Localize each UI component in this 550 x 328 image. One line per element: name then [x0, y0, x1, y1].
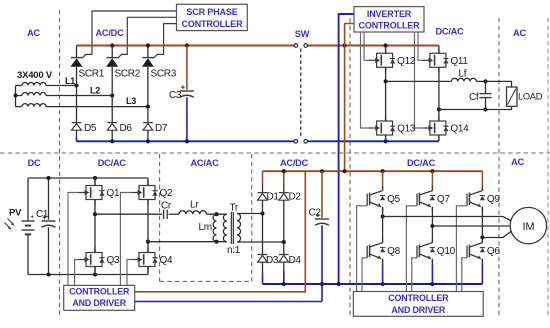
wire SCR3 cathode to DC+ rail: [147, 46, 149, 58]
node Lm bottom: [214, 240, 218, 244]
wire DC- bus corner to D5: [76, 138, 78, 141]
wire C1 top lead: [48, 178, 50, 220]
mosfet Q4: [132, 247, 173, 272]
mosfet Q1: [79, 180, 120, 205]
wire Q1 drain leg: [94, 178, 96, 186]
node Cf bottom: [483, 107, 487, 111]
wire gate Q4: [127, 260, 132, 286]
capacitor Cr: [164, 210, 168, 219]
wire D7 anode down: [147, 130, 149, 141]
svg-text:LOAD: LOAD: [518, 92, 543, 102]
mosfet Q3: [79, 247, 120, 272]
wire D6 anode down: [111, 130, 113, 141]
wire L2: [46, 95, 112, 97]
svg-text:Q8: Q8: [387, 246, 400, 257]
wire bridge output to Cr: [95, 213, 162, 215]
wire Q1 source to Q3 drain: [94, 200, 96, 253]
wire PV DC- rail: [28, 274, 148, 276]
igbt Q8: [367, 238, 400, 263]
wire C2 top lead brown: [321, 171, 323, 218]
diode D6: [107, 123, 117, 131]
section boundary dashed line DC-AC|AC: [498, 18, 500, 316]
svg-text:CONTROLLER: CONTROLLER: [69, 287, 130, 297]
wire D4 anode: [283, 262, 285, 271]
svg-text:Lf: Lf: [459, 69, 467, 80]
node phase 3: [480, 235, 484, 239]
wire gate Q6: [462, 258, 467, 292]
svg-text:IM: IM: [522, 221, 534, 233]
wire Q7 collector: [431, 187, 433, 191]
node Q3 source: [93, 272, 97, 276]
igbt Q6: [467, 238, 500, 263]
svg-text:SCR2: SCR2: [115, 69, 141, 80]
wire DC- bus right of SW pole2: [308, 140, 439, 142]
wire Q11 source to Q14 drain: [438, 67, 440, 121]
wire gate Q11: [418, 32, 423, 60]
node DC- bus / C3: [185, 139, 189, 143]
wire DC+ rail bottom: [263, 170, 483, 172]
node DC+ rail / C2: [320, 169, 324, 173]
node DC+ rail / C3: [185, 43, 189, 47]
wire D1 cathode: [262, 184, 264, 193]
switch SW pole 1: [294, 44, 308, 48]
wire inverter output top: [386, 80, 452, 82]
wire brown left controller to DC+ rail: [135, 171, 306, 292]
svg-text:SW: SW: [295, 29, 310, 39]
svg-text:AND DRIVER: AND DRIVER: [72, 298, 126, 308]
wire gate Q7: [406, 206, 417, 292]
wire D4 to DC- bus blue: [283, 271, 285, 284]
node rectifier right midpoint: [282, 240, 286, 244]
wire inverter output bottom: [439, 106, 512, 109]
PV source: [5, 178, 36, 275]
diode D4: [279, 255, 289, 263]
node DC- bus / controller feed: [337, 282, 341, 286]
wire gate Q1: [68, 193, 79, 286]
svg-text:Q3: Q3: [107, 255, 120, 266]
node DC+ rail / SCR2: [110, 43, 114, 47]
svg-text:Q9: Q9: [487, 194, 500, 205]
svg-text:Q2: Q2: [160, 188, 173, 199]
wire Q6 emitter: [481, 259, 483, 264]
svg-text:+: +: [30, 212, 35, 221]
diode D7: [143, 123, 153, 131]
wire C1 bottom lead: [48, 227, 50, 274]
wire secondary bottom to rectifier: [237, 241, 284, 243]
section boundary dashed line right edge: [547, 18, 549, 316]
svg-text:AC: AC: [27, 28, 40, 38]
wire L3: [46, 106, 148, 108]
svg-text:3X400 V: 3X400 V: [17, 70, 53, 81]
node L3 junction: [146, 105, 150, 109]
wire D3 anode: [262, 262, 264, 272]
wire D2 cathode brown: [283, 171, 285, 184]
svg-text:CONTROLLER: CONTROLLER: [359, 21, 421, 31]
svg-text:L1: L1: [65, 76, 75, 86]
wire Q8 emitter: [382, 259, 384, 264]
node DC+ rail / drop from top: [343, 169, 347, 173]
wire Q5 collector brown: [382, 171, 384, 187]
wire L2 node to D6: [111, 96, 113, 123]
wire D1 cathode brown: [262, 171, 264, 184]
svg-text:AC/DC: AC/DC: [280, 158, 309, 168]
node bridge right midpoint: [146, 240, 150, 244]
svg-text:Q10: Q10: [437, 246, 456, 257]
node DC+ rail / SCR3: [146, 43, 150, 47]
svg-text:DC: DC: [28, 158, 41, 168]
wire SCR1 anode to L1: [76, 67, 78, 86]
svg-text:Q13: Q13: [397, 124, 416, 135]
wire secondary top to rectifier: [237, 213, 263, 215]
svg-text:Cr: Cr: [161, 201, 172, 212]
resistor LOAD: [507, 87, 518, 106]
igbt Q5: [367, 186, 400, 211]
wire C3 top lead: [186, 84, 188, 90]
wire Q12 source to Q13 drain: [385, 67, 387, 121]
wire SCR1 cathode to DC+ rail: [76, 46, 78, 58]
wire Q3 source leg: [94, 267, 96, 275]
wire L1 node to D5: [76, 86, 78, 123]
wire SCR2 anode to L2: [111, 67, 113, 96]
svg-text:D6: D6: [120, 123, 133, 134]
wire Q7 emitter to phase node: [431, 207, 433, 226]
wire Lf to load top: [476, 81, 511, 87]
svg-text:L2: L2: [90, 86, 100, 96]
node DC+ rail / Q5: [381, 169, 385, 173]
svg-text:D2: D2: [289, 192, 302, 203]
svg-text:Q1: Q1: [107, 188, 120, 199]
svg-text:D4: D4: [289, 255, 302, 266]
wire D5 anode down: [76, 130, 78, 140]
wire Q4 source leg: [147, 267, 149, 275]
svg-text:AND DRIVER: AND DRIVER: [391, 305, 445, 315]
node L1 junction: [74, 83, 78, 87]
wire Q11 drain: [438, 46, 440, 54]
igbt Q7: [417, 186, 450, 211]
node DC- bus / Q13: [384, 139, 388, 143]
CONTROLLER AND DRIVER box left: [64, 285, 135, 310]
CONTROLLER AND DRIVER box right: [353, 292, 483, 317]
svg-text:SCR3: SCR3: [151, 69, 177, 80]
wire SCR3 gate to controller: [153, 24, 176, 59]
svg-text:C2: C2: [309, 208, 322, 219]
diode D2: [279, 193, 289, 201]
wire Q14 source to DC- bus: [438, 135, 440, 141]
mosfet Q14: [422, 116, 469, 141]
wire Q10 emitter: [431, 259, 433, 264]
node left leg midpoint: [384, 79, 388, 83]
mosfet Q12: [369, 48, 416, 73]
svg-text:Q14: Q14: [450, 124, 469, 135]
node Cf top: [483, 79, 487, 83]
svg-text:C1: C1: [36, 209, 49, 220]
svg-text:D7: D7: [155, 123, 168, 134]
wire Q2 source to Q4 drain: [147, 200, 149, 253]
node DC- bus / D6: [110, 139, 114, 143]
node DC- bus / D7: [146, 139, 150, 143]
wire bridge output bottom to transformer: [148, 241, 227, 243]
wire Cf bottom lead: [485, 98, 487, 109]
wire Cf top lead: [485, 81, 487, 93]
svg-text:Lm: Lm: [199, 222, 212, 233]
node Q1 drain: [93, 176, 97, 180]
svg-text:D3: D3: [266, 255, 279, 266]
inductor Lr: [179, 211, 207, 214]
wire D2 cathode: [283, 184, 285, 193]
svg-text:CONTROLLER: CONTROLLER: [388, 293, 449, 303]
wire phase node to Q6 collector: [481, 238, 483, 243]
wire SCR3 anode to L3: [147, 67, 149, 107]
wire gate Q12: [364, 32, 370, 60]
wire SCR2 cathode to DC+ rail: [111, 46, 113, 58]
svg-text:D1: D1: [267, 192, 280, 203]
wire phase 3 to IM: [482, 231, 511, 238]
node DC+ rail / Q12: [384, 43, 388, 47]
wire DC+ rail right of SW: [308, 45, 439, 47]
node DC- bus / Q8: [381, 282, 385, 286]
thyristor SCR2: [106, 58, 118, 67]
capacitor C2: [315, 213, 329, 225]
section boundary dashed line mid: [349, 18, 351, 316]
wire phase node to Q10 collector: [431, 226, 433, 243]
svg-text:Tr: Tr: [230, 203, 239, 214]
node right leg midpoint: [437, 107, 441, 111]
igbt Q9: [467, 186, 500, 211]
diode D3: [258, 255, 268, 263]
mosfet Q2: [132, 180, 173, 205]
capacitor Cf: [480, 94, 492, 98]
wire DC- bus left of SW pole2: [77, 140, 294, 142]
wire Cr to Lr: [169, 213, 179, 215]
wire D2-D4 leg: [283, 200, 285, 254]
wire Q9 collector brown: [481, 171, 483, 187]
wire Q13 source to DC- bus: [385, 135, 387, 141]
svg-text:Q12: Q12: [397, 56, 416, 67]
wire Q2 drain leg: [147, 178, 149, 186]
wire DC+ rail left of SW: [77, 45, 294, 47]
svg-text:n:1: n:1: [227, 245, 241, 256]
svg-text:AC/DC: AC/DC: [95, 28, 124, 38]
diode D5: [72, 123, 82, 131]
wire Q8 emitter to DC- bus blue: [382, 264, 384, 284]
svg-text:INVERTER: INVERTER: [367, 9, 412, 19]
svg-text:AC: AC: [511, 157, 524, 167]
wire phase 1 to IM: [383, 217, 512, 222]
igbt Q10: [417, 238, 456, 263]
svg-text:DC/AC: DC/AC: [435, 27, 464, 37]
thyristor SCR1: [71, 58, 83, 67]
wire Q5 collector: [382, 187, 384, 191]
wire Q12 drain: [385, 46, 387, 54]
node DC- bus / D4: [282, 282, 286, 286]
capacitor C1: [42, 215, 56, 227]
svg-text:AC/AC: AC/AC: [190, 158, 219, 168]
wire blue DC- feed inverter controller: [339, 14, 354, 284]
wire Q7 collector brown: [431, 171, 433, 187]
node C1 top: [46, 176, 50, 180]
three-phase source 3X400V: [14, 70, 53, 107]
node DC+ rail / brown drop: [343, 43, 347, 47]
motor IM: [510, 207, 546, 243]
svg-text:AC: AC: [513, 28, 526, 38]
node DC+ rail / D2: [282, 169, 286, 173]
transformer Tr: [223, 212, 240, 244]
svg-text:Cf: Cf: [469, 92, 479, 103]
node DC+ rail / Q7: [430, 169, 434, 173]
wire C2 bottom lead blue: [321, 225, 323, 301]
node DC- bus / C2: [320, 282, 324, 286]
svg-text:C3: C3: [169, 90, 182, 101]
wire D3 to DC- bus blue: [262, 273, 264, 285]
wire gate Q2: [120, 193, 131, 286]
wire gate Q5: [357, 206, 367, 292]
wire phase 2 to IM: [432, 225, 510, 227]
wire C3 top lead brown: [186, 46, 188, 85]
wire DC- bus bottom: [263, 283, 483, 285]
svg-text:Q4: Q4: [160, 255, 173, 266]
SCR PHASE CONTROLLER box: [177, 4, 248, 30]
wire Q9 emitter to phase node: [481, 207, 483, 238]
wire blue left controller to DC- bus: [135, 301, 322, 303]
svg-text:DC/AC: DC/AC: [407, 158, 436, 168]
wire phase node to Q8 collector: [382, 217, 384, 243]
node DC- bus / Q10: [430, 282, 434, 286]
node bridge left midpoint: [93, 212, 97, 216]
wire SCR2 gate to controller: [118, 17, 177, 58]
wire brown DC+ drop to AC/DC rectifier rail: [345, 24, 354, 172]
wire SCR1 gate to controller: [82, 11, 177, 58]
wire Q9 collector: [481, 187, 483, 191]
capacitor C3: [180, 85, 194, 97]
wire Q5 emitter to phase node: [382, 207, 384, 217]
node rectifier left midpoint: [260, 211, 264, 215]
inductor Lm: [213, 214, 216, 242]
svg-text:Q6: Q6: [487, 246, 500, 257]
inductor Lf: [452, 78, 477, 81]
wire Q10 emitter to DC- bus blue: [431, 264, 433, 284]
wire gate Q9: [456, 206, 467, 292]
wire C3 bottom lead blue: [186, 97, 188, 141]
AC/AC dashed sub-box: [160, 154, 252, 281]
svg-text:Lr: Lr: [190, 200, 199, 211]
svg-text:Q5: Q5: [387, 194, 400, 205]
wire gate Q13: [361, 32, 371, 128]
switch SW pole 2: [294, 140, 308, 144]
svg-text:CONTROLLER: CONTROLLER: [182, 19, 244, 29]
wire gate Q3: [75, 260, 79, 286]
wire gate Q8: [362, 258, 367, 292]
svg-text:SCR PHASE: SCR PHASE: [186, 7, 237, 17]
wire L1: [46, 85, 77, 87]
section boundary horizontal dashed line: [0, 152, 550, 154]
svg-text:D5: D5: [84, 123, 97, 134]
node L2 junction: [110, 93, 114, 97]
svg-text:PV: PV: [9, 208, 22, 219]
mosfet Q11: [422, 48, 468, 73]
wire D1-D3 leg: [262, 200, 264, 254]
diode D1: [258, 193, 268, 201]
svg-text:Q11: Q11: [450, 56, 468, 67]
svg-text:Q7: Q7: [437, 194, 450, 205]
wire Lr to transformer: [207, 213, 227, 215]
node phase 2: [430, 224, 434, 228]
section boundary dashed line AC|AC-DC / DC|DC-AC: [59, 10, 61, 316]
node Lm top: [214, 212, 218, 216]
wire L3 node to D7: [147, 107, 149, 123]
wire PV DC+ rail: [28, 177, 148, 179]
wire gate Q10: [412, 258, 417, 292]
node C1 bottom: [46, 272, 50, 276]
switch SW gang link dashed: [300, 49, 302, 139]
thyristor SCR3: [142, 58, 154, 67]
wire gate Q14: [415, 32, 424, 128]
svg-text:L3: L3: [126, 96, 136, 106]
INVERTER CONTROLLER box: [354, 7, 424, 32]
mosfet Q13: [369, 116, 416, 141]
svg-text:SCR1: SCR1: [79, 69, 105, 80]
wire Q6 emitter to DC- bus blue: [481, 264, 483, 284]
svg-text:DC/AC: DC/AC: [98, 158, 127, 168]
node phase 1: [381, 214, 385, 218]
